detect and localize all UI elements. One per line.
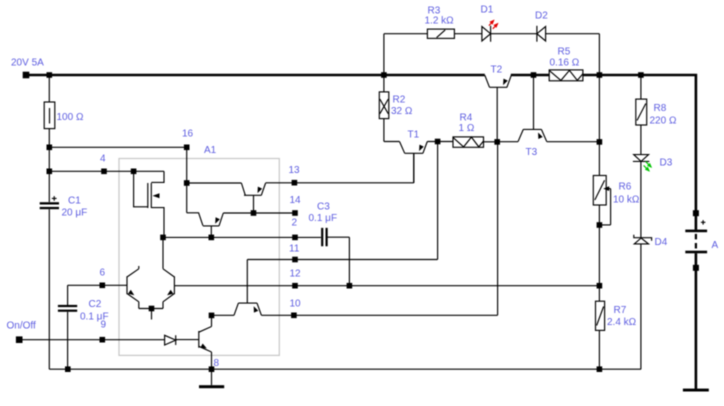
junction C3/pin12 — [347, 283, 353, 289]
junction R4/T2 base/T3 collector — [494, 139, 500, 145]
svg-text:6: 6 — [100, 268, 106, 279]
svg-text:On/Off: On/Off — [7, 321, 36, 332]
svg-text:11: 11 — [289, 244, 300, 255]
svg-text:8: 8 — [214, 358, 220, 369]
svg-text:D3: D3 — [660, 158, 673, 169]
junction pin12 / R6-R7 — [597, 283, 603, 289]
wire left rail — [48, 147, 50, 369]
wire pin16 net — [49, 147, 241, 225]
junction T1 emitter/R4/pin11 — [435, 139, 441, 145]
svg-text:4: 4 — [100, 154, 106, 165]
pin 10 — [291, 313, 297, 319]
junction left rail / pin4 wire — [47, 169, 53, 175]
resistor R3 1.2kohm — [384, 29, 482, 73]
wire pin4 net — [49, 170, 164, 172]
junction bus/T3 base — [531, 72, 537, 78]
svg-text:C1: C1 — [68, 195, 81, 206]
pin 4 — [101, 169, 107, 175]
junction MOSFET source / pin2 net — [160, 235, 166, 241]
svg-text:14: 14 — [290, 195, 302, 206]
transistor Q5 internal PNP top — [241, 183, 265, 213]
junction bus/R1 — [47, 72, 53, 78]
svg-text:A: A — [712, 240, 719, 251]
resistor R2 32ohm — [379, 77, 389, 142]
svg-text:A1: A1 — [204, 145, 217, 156]
junction R6 wiper — [597, 222, 603, 228]
svg-text:1 Ω: 1 Ω — [459, 123, 475, 134]
resistor R5 0.16ohm current sense — [549, 70, 583, 81]
svg-text:R2: R2 — [393, 95, 406, 106]
svg-text:R7: R7 — [614, 305, 627, 316]
svg-text:C3: C3 — [317, 202, 330, 213]
battery terminal node top — [693, 210, 699, 216]
svg-text:9: 9 — [101, 320, 107, 331]
junction C2/ground rail — [65, 366, 71, 372]
pin 12 — [292, 283, 298, 289]
ground symbol at pin 8 — [199, 369, 224, 388]
pin 2 — [292, 235, 298, 241]
pin 6 — [100, 283, 106, 289]
node On/Off terminal — [16, 336, 23, 343]
wire bus segment T2 emitter to R5 — [511, 74, 549, 77]
junction Q6 base / pin2 net — [209, 235, 215, 241]
transistor T3 — [497, 77, 599, 142]
svg-text:R6: R6 — [619, 182, 632, 193]
svg-text:R4: R4 — [460, 113, 473, 124]
wire bus segment R5 to right rail, down right edge — [583, 75, 696, 230]
svg-text:T2: T2 — [491, 65, 503, 76]
capacitor C3 0.1uF — [322, 228, 349, 286]
junction left rail / pin16 wire — [47, 145, 53, 151]
junction Q9 collector / pin10 branch — [209, 313, 215, 319]
wire pin12 net — [174, 285, 599, 287]
battery A — [685, 220, 707, 389]
svg-text:100 Ω: 100 Ω — [57, 112, 84, 123]
junction bus/D2-R6 — [597, 72, 603, 78]
node 20V5A input terminal — [23, 72, 30, 79]
pin 13 — [292, 180, 298, 186]
svg-text:10: 10 — [290, 299, 302, 310]
resistor R8 220ohm — [636, 99, 647, 125]
capacitor C2 0.1uF — [58, 305, 77, 369]
capacitor C1 20uF — [40, 196, 59, 209]
svg-text:D4: D4 — [655, 237, 668, 248]
battery terminal node bottom — [693, 265, 699, 271]
svg-text:0.16 Ω: 0.16 Ω — [550, 58, 580, 69]
wire main +20V bus (left section) — [23, 74, 485, 77]
transistor T1 — [384, 142, 453, 184]
diode D2 — [537, 26, 600, 73]
diode D4 zener — [634, 235, 652, 244]
wire diff pair tail — [139, 309, 163, 320]
svg-text:D2: D2 — [535, 11, 548, 22]
svg-text:2: 2 — [292, 217, 298, 228]
svg-text:1.2 kΩ: 1.2 kΩ — [425, 16, 455, 27]
resistor R4 1ohm — [453, 137, 497, 147]
resistor R1 100ohm — [44, 77, 55, 146]
transistor M1 internal MOSFET — [134, 171, 164, 237]
wire pin11 net — [247, 142, 437, 260]
wire R6 branch from bus — [598, 77, 600, 369]
wire pin6 net — [68, 285, 127, 305]
svg-text:0.1 μF: 0.1 μF — [309, 213, 338, 224]
svg-text:16: 16 — [182, 129, 194, 140]
svg-text:220 Ω: 220 Ω — [650, 116, 677, 127]
junction R7 / ground rail — [597, 366, 603, 372]
wire pin2 net — [163, 236, 321, 238]
pin 8 junction / label — [209, 366, 215, 372]
junction bus/R8 — [638, 72, 644, 78]
junction T3 emitter / R6 line — [597, 139, 603, 145]
pin 14 — [292, 210, 298, 216]
transistor T2 — [485, 75, 512, 142]
pin 9 — [100, 337, 106, 343]
junction bus/R2-R3 — [381, 72, 387, 78]
potentiometer R6 10kohm — [593, 176, 610, 225]
junction Q5 base / pin14 net — [251, 210, 257, 216]
junction diff tail — [149, 306, 155, 312]
wire pin13 net — [266, 153, 414, 183]
diode D3 (green LED) — [633, 155, 654, 174]
svg-text:10 kΩ: 10 kΩ — [613, 195, 640, 206]
junction pin4/gate — [131, 169, 137, 175]
wire R8 branch — [640, 77, 642, 369]
op-amp / IC A1 outline box — [119, 159, 279, 356]
wire bottom ground rail — [49, 368, 641, 370]
pin 16 — [184, 145, 190, 151]
svg-text:20 μF: 20 μF — [62, 208, 88, 219]
svg-text:2.4 kΩ: 2.4 kΩ — [607, 317, 637, 328]
transistor Q9 internal NPN — [199, 315, 212, 369]
transistor Q7 internal PNP lower — [214, 260, 261, 316]
svg-text:13: 13 — [289, 165, 301, 176]
diode D1 (red indicator) — [482, 18, 537, 42]
wire pin9 net — [22, 339, 165, 341]
svg-text:T3: T3 — [526, 147, 538, 158]
svg-text:12: 12 — [290, 269, 302, 280]
resistor R7 2.4kohm — [596, 301, 605, 330]
svg-text:D1: D1 — [481, 5, 494, 16]
svg-text:R8: R8 — [654, 103, 667, 114]
pin 11 — [292, 257, 298, 263]
wire pin14 net — [223, 212, 295, 214]
transistor Q3/Q4 diff pair left — [127, 266, 139, 309]
junction pin16/Q5 collector — [184, 180, 190, 186]
ground symbol at battery — [683, 389, 709, 392]
svg-text:C2: C2 — [89, 299, 102, 310]
svg-text:R5: R5 — [558, 47, 571, 58]
svg-text:32 Ω: 32 Ω — [391, 106, 413, 117]
wire pin10 net — [261, 142, 497, 315]
diode D5 internal — [165, 335, 199, 345]
transistor diff pair right — [163, 237, 174, 308]
svg-text:T1: T1 — [408, 130, 420, 141]
svg-text:20V 5A: 20V 5A — [11, 58, 44, 69]
transistor Q6 internal PNP mid — [203, 213, 223, 237]
